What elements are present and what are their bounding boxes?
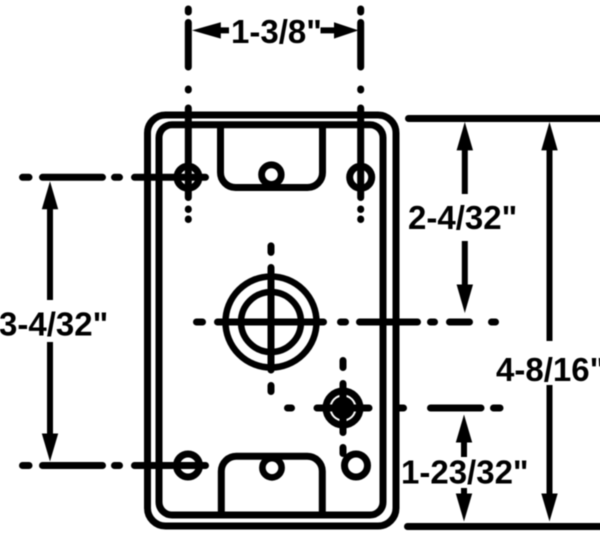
dimension 1-3/8 shaft segments (218, 27, 336, 33)
dimension 3-4/32 shaft segments (47, 207, 53, 435)
arrowhead 1-3/8 left (192, 22, 221, 38)
svg-text:1-23/32": 1-23/32" (401, 454, 529, 491)
arrowhead 4-8/16 up (541, 122, 557, 150)
arrowhead 3-4/32 up (42, 181, 58, 209)
outer box outline (148, 115, 397, 526)
hole bottom-left (177, 454, 200, 477)
centerline horizontal small hole y=408 (288, 405, 501, 412)
centerline horizontal center knockout y=322 (197, 319, 496, 326)
arrowhead 1-3/8 right (334, 22, 359, 38)
dimension 4-8/16 shaft segments (547, 149, 553, 495)
centerline horizontal top-left hole y=177.3 (23, 174, 206, 181)
svg-text:4-8/16": 4-8/16" (496, 351, 600, 388)
centerline vertical right x=360.7 (357, 9, 364, 220)
dimension 1-23/32 shaft segments (461, 441, 467, 495)
hole bottom-right (345, 454, 368, 477)
extension line bottom right y=526.5 (408, 523, 600, 530)
top bracket cutout (221, 123, 323, 188)
center knockout outer circle (226, 277, 317, 368)
bottom bracket hole (262, 458, 281, 477)
hole top-right (350, 166, 372, 188)
arrowhead 4-8/16 down (541, 494, 557, 522)
arrowhead 2-4/32 up (457, 122, 473, 150)
centerline vertical left x=188 (185, 9, 192, 220)
small hole filled center (332, 397, 355, 420)
svg-text:3-4/32": 3-4/32" (0, 305, 108, 342)
top bracket hole (262, 165, 282, 185)
centerline vertical small hole x=343 (340, 361, 347, 454)
arrowhead 1-23/32 up (456, 415, 472, 443)
dimension 2-4/32 shaft segments (462, 149, 468, 286)
bottom bracket cutout (221, 456, 322, 517)
arrowhead 3-4/32 down (42, 434, 58, 462)
svg-text:1-3/8": 1-3/8" (231, 13, 322, 50)
inner box outline (159, 125, 383, 515)
centerline vertical center knockout x=271 (268, 246, 275, 392)
arrowhead 1-23/32 down (456, 494, 472, 522)
extension line top right y=118.5 (409, 115, 600, 122)
small hole ring (326, 391, 360, 425)
arrowhead 2-4/32 down (457, 285, 473, 314)
center knockout inner circle (241, 292, 301, 352)
hole top-left (177, 166, 199, 188)
svg-text:2-4/32": 2-4/32" (408, 199, 517, 236)
centerline horizontal bottom-left hole y=465.5 (23, 462, 206, 469)
